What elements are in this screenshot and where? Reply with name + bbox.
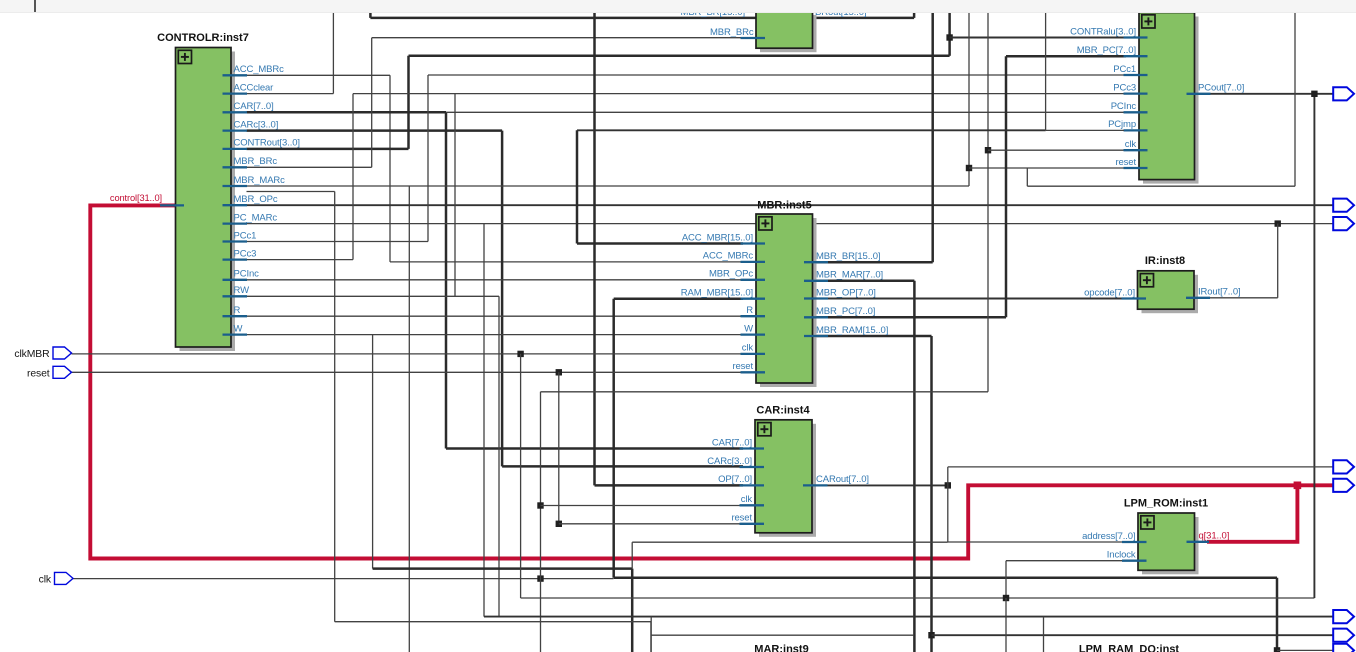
svg-text:MBR_MARc: MBR_MARc xyxy=(234,175,286,186)
svg-text:clkMBR: clkMBR xyxy=(14,349,50,360)
wire ACC_MBR bus v xyxy=(576,130,579,243)
pin CAR left y448.5 xyxy=(740,447,765,449)
svg-text:Inclock: Inclock xyxy=(1107,550,1136,561)
pin CONTROLR right y333.3 xyxy=(223,333,248,335)
bus control[31..0] red path xyxy=(90,205,1352,558)
wire address h xyxy=(948,541,1126,543)
svg-text:PCc3: PCc3 xyxy=(234,248,257,259)
svg-text:CAR:inst4: CAR:inst4 xyxy=(756,405,810,417)
pin MBR right y262.2 xyxy=(804,261,828,263)
wire W drop v xyxy=(372,335,374,569)
wire ACCclear v up xyxy=(332,12,334,94)
wire PCjmp feed h xyxy=(577,129,1046,131)
wire MBR_MARc h xyxy=(247,185,970,187)
pin MBR left y298.7 xyxy=(741,298,766,300)
wire CAR clk h xyxy=(541,505,744,507)
wire Inclock v xyxy=(1005,561,1007,598)
pin BR MBR_BRc xyxy=(741,37,766,39)
svg-text:RAM_MBR[15..0]: RAM_MBR[15..0] xyxy=(681,288,753,299)
output connector 2 xyxy=(1333,199,1354,212)
pin CONTROLR right y112.3 xyxy=(223,111,248,113)
svg-text:opcode[7..0]: opcode[7..0] xyxy=(1084,287,1135,298)
wire clkpc v x988 xyxy=(987,12,989,392)
wire OP bus h xyxy=(595,484,744,487)
wire RAM_MBR low v xyxy=(1276,578,1279,651)
pin MBR right y317.3 xyxy=(804,316,828,318)
wire MBR_MAR h xyxy=(814,280,914,283)
wire ACC_MBRc h xyxy=(247,74,391,76)
bus q[31..0] red branch xyxy=(1207,485,1297,542)
wire PCc1 to PC h xyxy=(428,74,1126,76)
pin CONTROLR right y167.3 xyxy=(223,166,248,168)
svg-text:IR:inst8: IR:inst8 xyxy=(1145,255,1185,267)
wire conn6 v2 xyxy=(1043,617,1045,652)
wire MBR_BRc h xyxy=(247,166,372,168)
wire underPC v x1295 xyxy=(1294,12,1296,187)
pin CONTROLR right y277.9 xyxy=(223,279,248,281)
svg-text:R: R xyxy=(746,305,753,316)
junction CAR reset xyxy=(556,521,562,527)
wire underPC v x1027 xyxy=(1026,168,1028,186)
component MBR:inst5 xyxy=(756,214,817,387)
pin PC left y37.5 xyxy=(1124,36,1148,38)
junction MBR_RAM row xyxy=(928,632,934,638)
wire clkMBR h xyxy=(72,353,744,355)
op-amp? no - component PC register xyxy=(1139,13,1199,184)
wire low h y598 xyxy=(521,597,1315,599)
wire MBR_BR h xyxy=(814,261,933,264)
junction clkMBR xyxy=(517,351,523,357)
svg-text:reset: reset xyxy=(27,368,50,379)
wire MBR_BRc top h xyxy=(372,37,745,39)
svg-text:R: R xyxy=(234,305,241,316)
wire PCInc/MBR_OPc h xyxy=(247,279,744,281)
junction IRout row xyxy=(1275,220,1281,226)
svg-text:PC_MARc: PC_MARc xyxy=(234,212,278,223)
svg-text:clk: clk xyxy=(742,343,754,354)
wire PCc1 v xyxy=(427,75,429,242)
wire MBR_OP opcode h xyxy=(814,298,1126,300)
wire row191 h xyxy=(247,191,335,193)
svg-text:PCc1: PCc1 xyxy=(1113,64,1136,75)
wire CAR bus to CAR h xyxy=(446,447,743,450)
svg-text:MBR_BRc: MBR_BRc xyxy=(710,27,754,38)
wire node v x409 xyxy=(408,186,410,652)
pin CONTROLR right y223.6 xyxy=(223,222,248,224)
wire MBR_RAM h xyxy=(814,335,932,338)
wire mid h y392 xyxy=(541,391,989,393)
wire RAM_MBR bus h xyxy=(614,297,743,300)
pin MBR right y298.5 xyxy=(804,297,828,299)
pin address xyxy=(1122,541,1147,543)
pin CONTROLR right y241.5 xyxy=(223,240,248,242)
component CAR:inst4 xyxy=(755,420,816,537)
svg-text:q[31..0]: q[31..0] xyxy=(1199,531,1230,542)
pin PCout xyxy=(1187,93,1211,95)
wire CONTRout bus v xyxy=(407,56,410,149)
svg-text:clk: clk xyxy=(741,494,753,505)
svg-text:ACC_MBR[15..0]: ACC_MBR[15..0] xyxy=(682,232,753,243)
pin MBR right y336 xyxy=(804,335,828,337)
wire PCc3 v xyxy=(352,94,354,260)
wire top stub v2 xyxy=(913,12,916,18)
wire CARc bus to CAR h xyxy=(502,465,743,468)
wire CONTRout bus top h xyxy=(409,55,950,58)
wire MAR top h xyxy=(651,634,914,636)
wire underPC h y186 xyxy=(1027,185,1295,187)
pin MBR left y316.2 xyxy=(741,315,766,317)
pin PC left y112.3 xyxy=(1124,111,1148,113)
wire CAR bus h xyxy=(247,111,447,114)
wire ACCclear h xyxy=(247,93,334,95)
svg-text:address[7..0]: address[7..0] xyxy=(1082,531,1135,542)
svg-text:IRout[7..0]: IRout[7..0] xyxy=(1198,287,1241,298)
svg-text:ACCclear: ACCclear xyxy=(234,82,274,93)
wire top stub v1 xyxy=(369,12,372,18)
wire MBR_PC to PC h xyxy=(1006,55,1126,58)
wire bottomleft v x335 xyxy=(334,192,336,622)
input connector reset xyxy=(53,366,72,378)
junction CAR clk xyxy=(537,502,543,508)
wire MBR_BR v up xyxy=(931,12,934,263)
pin CONTROLR right y204.6 xyxy=(223,204,248,206)
pin MBR left y279.8 xyxy=(741,279,766,281)
component IR:inst8 xyxy=(1138,271,1199,313)
svg-text:PCInc: PCInc xyxy=(234,269,260,280)
pin CAR left y467 xyxy=(740,466,765,468)
output connector control xyxy=(1333,479,1354,492)
wire CAR reset h xyxy=(559,523,743,525)
svg-text:MBR_OPc: MBR_OPc xyxy=(234,194,278,205)
pin CONTROLR right y75.3 xyxy=(223,74,248,76)
svg-text:PCout[7..0]: PCout[7..0] xyxy=(1198,83,1244,94)
junction CARout xyxy=(945,482,951,488)
wire CARout up v xyxy=(947,467,949,486)
pin CONTROLR right y259.6 xyxy=(223,258,248,260)
junction RAM out row xyxy=(1274,647,1280,652)
pin q[31..0] xyxy=(1187,541,1210,543)
output connector 6 xyxy=(1333,610,1354,623)
pin Inclock xyxy=(1122,560,1147,562)
output connector PCout xyxy=(1333,87,1354,100)
wire RAM_MBR bus v xyxy=(612,299,615,578)
output connector 8 xyxy=(1333,644,1354,652)
pin MBR left y353.9 xyxy=(741,353,766,355)
wire CAR bus v xyxy=(445,112,448,448)
wire PC_MARc long h xyxy=(247,223,1334,225)
wire to conn8 h xyxy=(1277,649,1334,651)
viewport top gray strip xyxy=(0,0,1356,13)
wire MBR_RAM v xyxy=(930,336,933,652)
component BR (top, partially cut) xyxy=(756,11,817,52)
svg-text:MBR_BR[15..0]: MBR_BR[15..0] xyxy=(816,251,880,262)
svg-text:LPM_ROM:inst1: LPM_ROM:inst1 xyxy=(1124,498,1208,510)
output connector 4 xyxy=(1333,460,1354,473)
wire PCc3 to PC h xyxy=(353,93,1126,95)
pin CONTROLR right y93.6 xyxy=(223,92,248,94)
wire RAM row to conn7 h xyxy=(932,634,1334,636)
wire address west h xyxy=(632,541,948,543)
pin CONTROLR right y186 xyxy=(223,185,248,187)
wire MAR v1 xyxy=(650,622,652,652)
pin PC left y168 xyxy=(1124,167,1148,169)
output connector 3 xyxy=(1333,217,1354,230)
pin PC left y75 xyxy=(1124,74,1148,76)
wire pcout v x1314 xyxy=(1313,94,1315,598)
wire MBR_PC v xyxy=(1005,56,1008,317)
wire RW v xyxy=(498,296,500,616)
wire MBR_BRc v xyxy=(371,38,373,168)
input connector clk xyxy=(55,572,74,584)
wire W low h xyxy=(373,567,633,570)
svg-text:ACC_MBRc: ACC_MBRc xyxy=(234,64,285,75)
wire to conn4 h xyxy=(948,466,1334,468)
svg-text:MBR_PC[7..0]: MBR_PC[7..0] xyxy=(816,306,875,317)
wire CONTRalu to PC h xyxy=(950,37,1126,39)
pin CONTROLR right y296.3 xyxy=(223,295,248,297)
pin MBR right y280.8 xyxy=(804,280,828,282)
svg-text:MBR_MAR[7..0]: MBR_MAR[7..0] xyxy=(816,270,883,281)
wire reset to PC h xyxy=(969,167,1126,169)
wire PCc1 h xyxy=(247,241,429,243)
svg-text:MBR_OPc: MBR_OPc xyxy=(709,269,753,280)
svg-text:CAR[7..0]: CAR[7..0] xyxy=(234,101,274,112)
wire clk to PC h xyxy=(988,149,1126,151)
junction PCout xyxy=(1311,91,1317,97)
svg-text:ACC_MBRc: ACC_MBRc xyxy=(703,251,754,262)
svg-text:control[31..0]: control[31..0] xyxy=(110,193,162,203)
viewport scroll mark xyxy=(34,0,36,12)
junction reset xyxy=(556,369,562,375)
junction clk-pc xyxy=(985,147,991,153)
wire PC_MARc drop v xyxy=(483,224,485,617)
wire PCjmp v xyxy=(1045,12,1047,131)
wire OP bus v xyxy=(593,12,596,486)
junction reset-pc xyxy=(966,165,972,171)
wire RW h xyxy=(247,295,500,297)
svg-text:PCInc: PCInc xyxy=(1111,101,1137,112)
wire R h xyxy=(247,315,744,317)
wire W h xyxy=(247,334,744,336)
wire ACC_MBRc v xyxy=(389,75,391,262)
wire PCInc to PC h xyxy=(446,111,1126,113)
svg-text:CONTROLR:inst7: CONTROLR:inst7 xyxy=(157,32,249,44)
svg-text:OP[7..0]: OP[7..0] xyxy=(718,474,752,485)
pin CONTROLR right y130.6 xyxy=(223,129,248,131)
svg-text:RW: RW xyxy=(234,285,250,296)
wire CARc bus h xyxy=(247,129,503,132)
wire IRout v xyxy=(1277,224,1279,298)
svg-text:W: W xyxy=(744,323,753,334)
wire ACC_MBRc to MBR h xyxy=(390,261,743,263)
wire CARc bus v xyxy=(501,131,504,467)
wire ACC_MBR bus h xyxy=(577,242,743,245)
junction clk xyxy=(537,575,543,581)
wire reset h xyxy=(72,371,744,373)
pin CONTROLR right y148.9 xyxy=(223,148,248,150)
pin PC left y130.4 xyxy=(1124,129,1148,131)
svg-text:PCc1: PCc1 xyxy=(234,230,257,241)
wire clkMBR drop v xyxy=(520,354,522,598)
svg-text:CONTRalu[3..0]: CONTRalu[3..0] xyxy=(1070,26,1136,37)
pin CAR left y485.4 xyxy=(740,484,765,486)
pin PC left y56.2 xyxy=(1124,55,1148,57)
pin IRout xyxy=(1186,297,1210,299)
svg-text:reset: reset xyxy=(731,513,752,524)
pin CARout xyxy=(803,484,828,486)
junction red q/control xyxy=(1294,482,1302,490)
wire PCc3 h xyxy=(247,259,354,261)
svg-text:W: W xyxy=(234,323,243,334)
wire MBR_OPc long h xyxy=(247,204,1334,206)
pin CAR left y505.3 xyxy=(740,504,765,506)
wire CONTRout bus v up xyxy=(948,12,951,56)
wire MBR_MAR v xyxy=(913,281,916,652)
svg-text:CARout[7..0]: CARout[7..0] xyxy=(816,474,869,485)
svg-text:MBR_BRc: MBR_BRc xyxy=(234,156,278,167)
svg-text:PCjmp: PCjmp xyxy=(1108,119,1136,130)
wire reset drop v xyxy=(558,372,560,524)
wire PCout h xyxy=(1196,93,1334,95)
pin CONTROLR right y314.8 xyxy=(223,315,248,317)
wire conn6 v1 xyxy=(650,617,652,652)
svg-text:PCc3: PCc3 xyxy=(1113,82,1136,93)
wire reset-pc v xyxy=(968,12,970,187)
wire clk v xyxy=(540,392,542,652)
wire conn6 h xyxy=(484,616,1334,618)
pin opcode xyxy=(1122,297,1147,299)
wire CARout down v xyxy=(947,485,949,542)
pin CAR left y523.8 xyxy=(740,523,765,525)
wire IRout h xyxy=(1205,297,1278,299)
pin MBR left y372.3 xyxy=(741,371,766,373)
svg-text:CARc[3..0]: CARc[3..0] xyxy=(707,456,752,467)
svg-text:reset: reset xyxy=(1115,157,1136,168)
output connector 7 xyxy=(1333,629,1354,642)
wire Inclock h xyxy=(1006,560,1126,562)
wire PCjmp h xyxy=(1046,129,1124,131)
input connector clkMBR xyxy=(53,347,72,359)
wire CONTRout bus h xyxy=(247,148,409,151)
svg-text:reset: reset xyxy=(732,361,753,372)
wire W low v xyxy=(631,569,634,652)
wire address west v xyxy=(631,542,633,568)
wire CARout h xyxy=(814,484,948,486)
svg-text:clk: clk xyxy=(1125,139,1137,150)
svg-text:MBR_PC[7..0]: MBR_PC[7..0] xyxy=(1077,45,1136,56)
wire MBR_PC h xyxy=(814,316,1006,319)
svg-text:MBR:inst5: MBR:inst5 xyxy=(757,200,811,212)
pin MBR left y261.9 xyxy=(741,261,766,263)
junction low row xyxy=(1003,595,1009,601)
svg-text:CONTRout[3..0]: CONTRout[3..0] xyxy=(234,138,300,149)
svg-text:CARc[3..0]: CARc[3..0] xyxy=(234,119,279,130)
pin PC left y93.6 xyxy=(1124,92,1148,94)
wire low drop v xyxy=(1005,598,1007,652)
pin MBR left y243.5 xyxy=(741,242,766,244)
junction CONTRalu xyxy=(946,34,952,40)
pin PC left y150.2 xyxy=(1124,149,1148,151)
svg-text:clk: clk xyxy=(39,574,52,585)
wire top h y18 xyxy=(370,17,914,20)
svg-text:MBR_OP[7..0]: MBR_OP[7..0] xyxy=(816,287,876,298)
svg-text:CAR[7..0]: CAR[7..0] xyxy=(712,437,752,448)
wire bottomleft h y622 xyxy=(335,621,651,623)
wire RAM_MBR low h xyxy=(614,577,1277,580)
component CONTROLR:inst7 xyxy=(176,48,236,352)
svg-text:MAR:inst9: MAR:inst9 xyxy=(754,644,808,652)
pin control[31..0] xyxy=(160,204,184,206)
wire clk h xyxy=(73,578,614,580)
svg-text:LPM_RAM_DQ:inst: LPM_RAM_DQ:inst xyxy=(1079,644,1180,652)
pin MBR left y334.6 xyxy=(741,333,766,335)
svg-text:MBR_RAM[15..0]: MBR_RAM[15..0] xyxy=(816,325,888,336)
component LPM_ROM:inst1 xyxy=(1138,513,1199,574)
wire mid v x455 xyxy=(454,94,456,297)
